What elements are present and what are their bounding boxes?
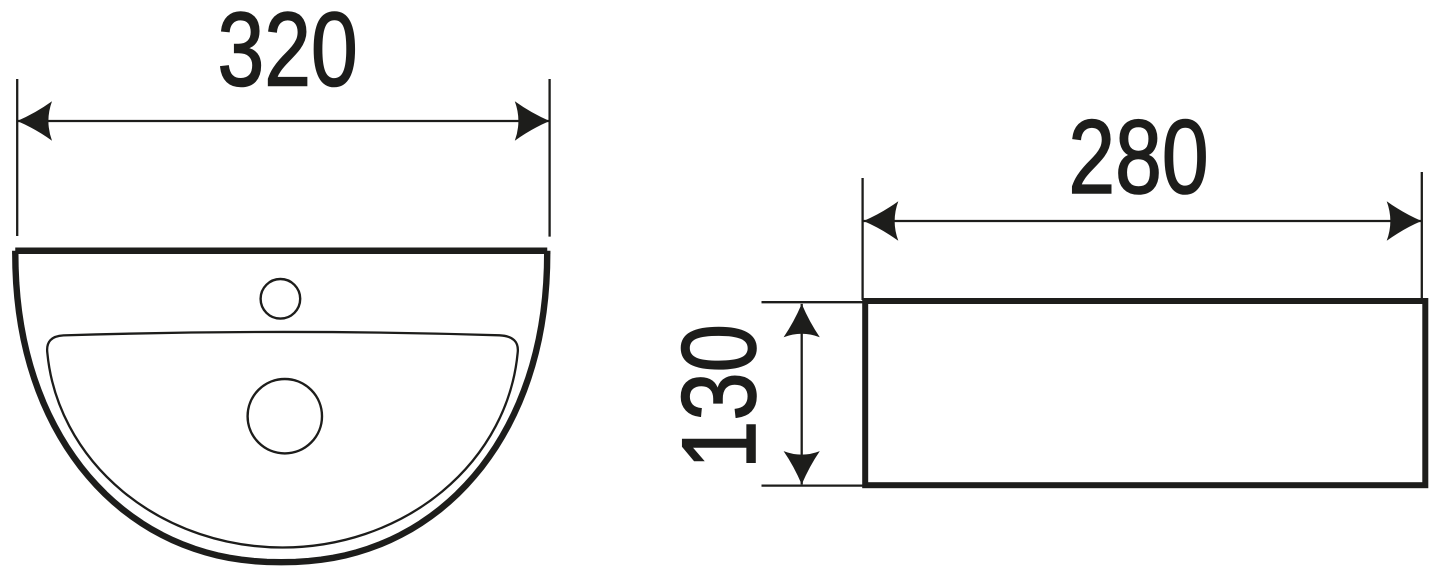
dimension line 320 [17,120,549,122]
extension line right of 280 dimension [1421,172,1423,298]
arrowhead left of 320 dimension [17,101,52,140]
extension line bottom of 130 dimension [762,484,865,486]
basin inner outline (top view) [47,332,518,548]
extension line left of 280 dimension [861,178,863,300]
arrowhead left of 280 dimension [864,201,899,241]
svg-text:280: 280 [1068,99,1208,216]
basin outer outline (top view) [15,251,547,563]
faucet hole [261,279,301,319]
svg-text:130: 130 [661,324,778,469]
arrowhead right of 320 dimension [515,101,550,140]
extension line left of 320 dimension [16,79,18,236]
arrowhead top of 130 dimension [784,304,820,337]
extension line right of 320 dimension [548,79,550,237]
arrowhead right of 280 dimension [1387,201,1422,241]
arrowhead bottom of 130 dimension [784,451,820,484]
dimension line 130 [801,304,803,485]
side view rectangle [865,301,1425,485]
svg-text:320: 320 [218,0,358,109]
extension line top of 130 dimension [762,301,865,303]
dimension line 280 [864,220,1422,222]
drain hole [248,379,322,453]
